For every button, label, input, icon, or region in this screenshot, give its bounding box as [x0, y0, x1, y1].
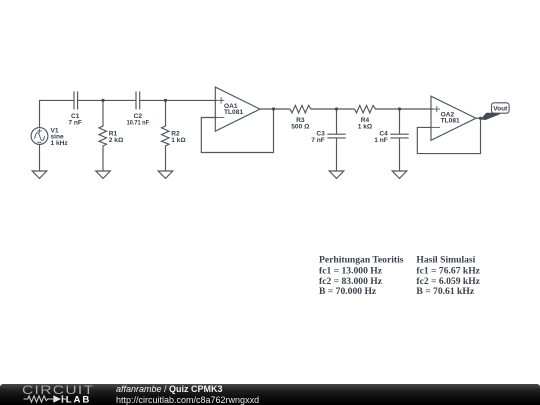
node junction OA2 output [479, 117, 482, 120]
svg-text:1 nF: 1 nF [374, 137, 388, 144]
svg-text:Perhitungan Teoritis: Perhitungan Teoritis [319, 255, 404, 266]
svg-text:2 kΩ: 2 kΩ [109, 137, 124, 144]
svg-text:7 nF: 7 nF [68, 119, 82, 126]
node junction OA1 output [272, 107, 275, 110]
label OA2 [441, 112, 460, 125]
resistor R1 [99, 100, 107, 171]
label C1 value [68, 113, 82, 127]
svg-text:TL081: TL081 [441, 118, 460, 125]
voltage source V1 [31, 128, 48, 171]
footer url text [116, 395, 259, 405]
wire top-left from V1 to C1 [40, 100, 75, 128]
label R3 value [291, 117, 310, 131]
CircuitLab logo [22, 383, 135, 395]
ground (C4) [392, 171, 407, 178]
label R4 value [358, 117, 373, 131]
node junction R3/C3 [335, 107, 338, 110]
svg-text:Hasil Simulasi: Hasil Simulasi [416, 255, 475, 266]
wire OA2 feedback loop [417, 118, 480, 153]
footer bar [0, 384, 540, 405]
op-amp OA2 [431, 96, 476, 140]
resistor R4 [355, 105, 434, 113]
svg-text:500 Ω: 500 Ω [291, 124, 310, 131]
svg-text:Vout: Vout [493, 106, 508, 113]
svg-text:1 kHz: 1 kHz [51, 140, 69, 147]
ground (R2) [158, 171, 173, 178]
svg-text:TL081: TL081 [224, 109, 243, 116]
node junction C2/R2 [164, 99, 167, 102]
label R2 value [171, 131, 186, 144]
svg-text:fc1 = 13.000 Hz: fc1 = 13.000 Hz [319, 265, 383, 276]
capacitor C3 [327, 109, 345, 171]
op-amp OA1 [215, 87, 260, 131]
svg-text:LAB: LAB [66, 395, 91, 405]
resistor R3 [290, 105, 355, 113]
capacitor C4 [390, 109, 408, 171]
node Vout flag tail [481, 113, 501, 120]
node junction C1/R1 [101, 99, 104, 102]
label C4 value [374, 130, 388, 144]
label R1 value [109, 131, 124, 144]
capacitor C1 [74, 91, 78, 109]
wire OA1 feedback loop [201, 109, 273, 153]
ground (C3) [329, 171, 344, 178]
annotation: Perhitungan Teoritis column [319, 255, 404, 298]
svg-text:10.71 nF: 10.71 nF [127, 119, 149, 126]
svg-text:B = 70.61 kHz: B = 70.61 kHz [416, 286, 474, 297]
ground (V1) [32, 171, 47, 178]
wire C1 to C2 [78, 99, 136, 101]
label C2 value [127, 113, 149, 127]
svg-text:1 kΩ: 1 kΩ [358, 124, 373, 131]
ground (R1) [96, 171, 111, 178]
annotation: Hasil Simulasi column [416, 255, 480, 298]
node Vout flag box [492, 103, 510, 113]
wire OA2 output [476, 117, 481, 119]
label C3 value [311, 130, 325, 144]
wire OA1 output to R3 [260, 108, 290, 110]
footer title text [116, 384, 223, 394]
svg-text:B = 70.000 Hz: B = 70.000 Hz [319, 286, 377, 297]
svg-text:fc1 = 76.67 kHz: fc1 = 76.67 kHz [416, 265, 480, 276]
svg-text:7 nF: 7 nF [311, 137, 325, 144]
label V1 value [51, 127, 69, 146]
node junction R4/C4 [398, 107, 401, 110]
label OA1 [224, 103, 243, 116]
wire C2 to OA1 plus input [140, 99, 218, 101]
svg-text:1 kΩ: 1 kΩ [171, 137, 186, 144]
resistor R2 [162, 100, 170, 171]
capacitor C2 [136, 91, 140, 109]
